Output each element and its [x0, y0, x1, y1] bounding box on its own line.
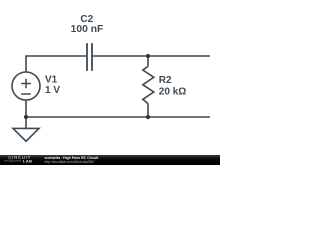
wire bottom horizontal: [26, 116, 210, 118]
wire top-left horizontal V1 to C2: [26, 56, 86, 72]
logo waveform squiggle: [4, 160, 22, 162]
voltage source V1: [12, 72, 40, 100]
svg-text:http://circuitlab.com/c5udunka: http://circuitlab.com/c5udunka5f67: [45, 160, 95, 164]
node bottom junction: [146, 115, 150, 119]
node ground junction: [24, 115, 28, 119]
ground: [13, 117, 39, 141]
wire V1 bottom to ground node: [25, 100, 27, 117]
resistor R2: [143, 56, 154, 117]
footer watermark bar: [0, 155, 220, 165]
wire top C2 to right end: [93, 55, 210, 57]
node top junction: [146, 54, 150, 58]
svg-text:LAB: LAB: [23, 158, 33, 163]
capacitor C2: [87, 43, 92, 71]
